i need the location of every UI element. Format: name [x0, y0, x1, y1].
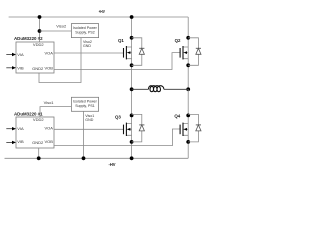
- svg-text:Isolated Power: Isolated Power: [73, 100, 98, 104]
- svg-text:Viso1: Viso1: [44, 100, 55, 105]
- diode D4 (body diode of Q4): [188, 114, 201, 141]
- junction left bridge midpoint: [130, 87, 134, 91]
- op-amp (gate driver) ADuM3220 #1: [16, 117, 54, 148]
- op-amp (gate driver) ADuM3220 #2: [16, 42, 54, 73]
- wire load connection: [132, 88, 189, 90]
- svg-text:VDD2: VDD2: [33, 42, 44, 47]
- transistor Q4: [180, 89, 190, 158]
- wire Viso2 to PS2: [40, 30, 72, 32]
- svg-text:VDD2: VDD2: [33, 117, 44, 122]
- wire VOA#1 to Q3 gate: [54, 128, 123, 130]
- svg-text:VOA: VOA: [44, 126, 53, 131]
- svg-text:Viso2: Viso2: [56, 24, 67, 29]
- svg-text:VIA: VIA: [17, 126, 24, 131]
- junction GND2#1 on -HV rail: [37, 156, 41, 160]
- svg-text:Q2: Q2: [175, 38, 181, 43]
- isolated power supply PS2: [71, 24, 98, 38]
- wire Viso2 GND drop from PS2: [39, 38, 81, 83]
- wire +HV top rail: [9, 16, 189, 18]
- svg-text:VOA: VOA: [44, 51, 53, 56]
- junction on +HV rail at x=39.5: [38, 15, 42, 19]
- svg-text:-HV: -HV: [109, 162, 116, 167]
- wire input VIB of #1 with arrow: [6, 141, 13, 143]
- svg-text:Q4: Q4: [174, 114, 180, 119]
- svg-text:GND2: GND2: [32, 66, 44, 71]
- junction Q3 source on -HV rail: [130, 156, 134, 160]
- svg-text:GND: GND: [83, 44, 91, 48]
- wire GND2#1 drop to -HV rail: [38, 148, 40, 158]
- wire VOB#2 to Q2 gate: [54, 53, 180, 70]
- wire VDD2 drop from +HV rail to ADuM3220 #2: [39, 17, 41, 42]
- svg-text:Supply, PS1: Supply, PS1: [75, 104, 95, 108]
- wire input VIB of #2 with arrow: [6, 67, 13, 69]
- svg-text:GND2: GND2: [32, 140, 44, 145]
- svg-text:VIB: VIB: [17, 65, 24, 70]
- svg-text:Q3: Q3: [115, 115, 121, 120]
- inductor L1 (load): [149, 86, 164, 92]
- junction on +HV rail at Q1: [130, 15, 134, 19]
- svg-text:VIA: VIA: [17, 52, 24, 57]
- transistor Q2: [180, 17, 190, 89]
- svg-text:VOB: VOB: [44, 139, 53, 144]
- junction Viso1 GND on -HV rail: [82, 156, 86, 160]
- svg-text:ADuM3220 #1: ADuM3220 #1: [14, 111, 43, 116]
- svg-text:Supply, PS2: Supply, PS2: [75, 30, 95, 34]
- diode D1 (body diode of Q1): [132, 38, 145, 66]
- transistor Q1: [124, 36, 134, 67]
- svg-text:Q1: Q1: [118, 38, 124, 43]
- wire -HV bottom rail: [5, 157, 189, 159]
- isolated power supply PS1: [71, 97, 98, 111]
- wire VOB#1 to Q4 gate: [54, 129, 180, 146]
- svg-text:Isolated Power: Isolated Power: [73, 26, 98, 30]
- svg-text:ADuM3220 #2: ADuM3220 #2: [14, 36, 43, 41]
- wire input VIA of #2 with arrow: [6, 54, 13, 56]
- diode D3 (body diode of Q3): [132, 114, 145, 141]
- wire input VIA of #1 with arrow: [6, 128, 13, 130]
- wire Viso1 GND drop from PS1 to -HV rail: [83, 111, 85, 158]
- svg-text:+HV: +HV: [99, 9, 105, 14]
- junction Viso2 tap at (39.5,31): [38, 29, 42, 33]
- transistor Q3: [124, 114, 134, 144]
- wire Q1/Q3 main vertical (left half-bridge): [131, 17, 133, 158]
- svg-text:VIB: VIB: [17, 139, 24, 144]
- svg-text:VOB: VOB: [44, 65, 53, 70]
- wire VOA#2 to Q1 gate: [54, 52, 123, 54]
- svg-text:GND: GND: [85, 118, 93, 122]
- junction right bridge midpoint: [186, 87, 190, 91]
- wire Viso1 to PS1 and VDD2 of #1: [40, 107, 71, 117]
- diode D2 (body diode of Q2): [188, 38, 201, 66]
